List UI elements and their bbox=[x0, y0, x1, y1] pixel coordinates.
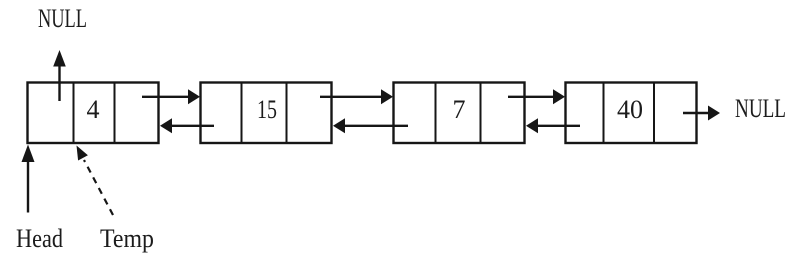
arrow prev N1 to NULL (up arrow) bbox=[53, 50, 66, 101]
arrow next N3 to N4 bbox=[508, 89, 565, 104]
node N1 box bbox=[28, 83, 159, 144]
svg-text:NULL: NULL bbox=[38, 4, 87, 33]
svg-text:NULL: NULL bbox=[735, 94, 786, 123]
arrow prev N2 to N1 bbox=[160, 118, 214, 133]
svg-text:40: 40 bbox=[617, 95, 643, 124]
node N3 cell dividers bbox=[436, 83, 481, 144]
svg-text:4: 4 bbox=[87, 95, 100, 124]
node N3 box bbox=[394, 83, 525, 144]
arrow next N4 to NULL bbox=[683, 106, 720, 121]
svg-text:15: 15 bbox=[257, 95, 277, 124]
head pointer arrow bbox=[22, 145, 35, 213]
node N4 cell dividers bbox=[604, 83, 655, 144]
node N1 cell dividers bbox=[74, 83, 115, 144]
svg-text:Head: Head bbox=[16, 224, 63, 253]
node N2 cell dividers bbox=[242, 83, 287, 144]
arrow prev N3 to N2 bbox=[333, 118, 408, 133]
arrow next N1 to N2 bbox=[142, 89, 200, 104]
svg-text:7: 7 bbox=[453, 95, 466, 124]
arrow next N2 to N3 bbox=[320, 89, 393, 104]
temp pointer dashed arrow bbox=[77, 146, 114, 216]
arrow prev N4 to N3 bbox=[526, 118, 580, 133]
node N2 box bbox=[201, 83, 332, 144]
svg-text:Temp: Temp bbox=[100, 224, 154, 253]
node N4 box bbox=[566, 83, 697, 144]
